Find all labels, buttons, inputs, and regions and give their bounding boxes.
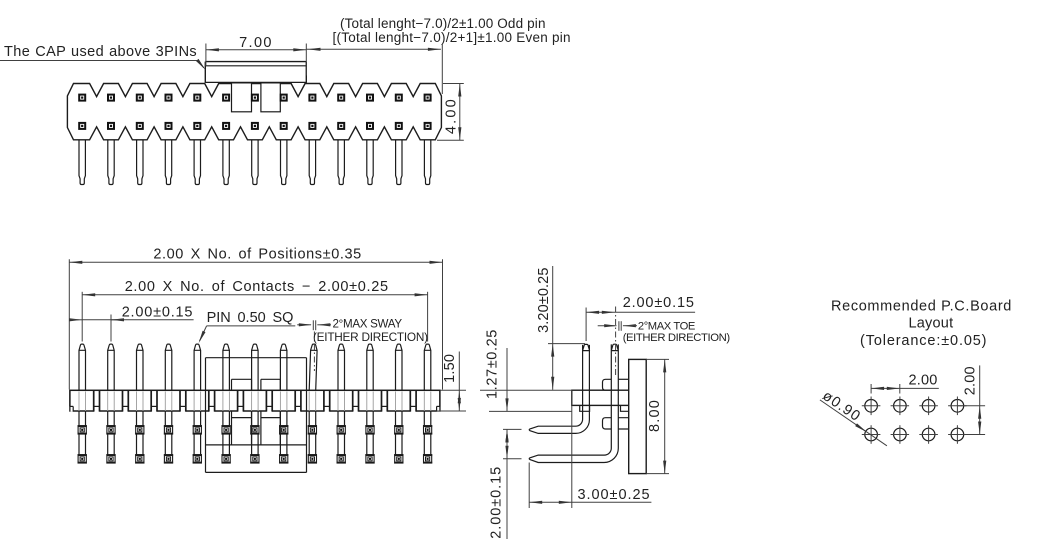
leader note: The CAP used above 3PINs	[0, 44, 206, 70]
dimension 3.00±0.25 (tail length)	[529, 390, 651, 508]
svg-text:1.27±0.25: 1.27±0.25	[485, 329, 501, 399]
svg-text:1.50: 1.50	[442, 354, 458, 383]
front view: body strip	[70, 390, 440, 411]
top view: cap post right	[261, 83, 280, 112]
front view: body position separations and bottom notches	[69, 390, 440, 412]
svg-text:3.20±0.25: 3.20±0.25	[536, 268, 552, 333]
front view: cap outline (phantom)	[206, 358, 307, 473]
dimension 2.00 X No. of Positions±0.35	[69, 247, 442, 390]
svg-text:4.00: 4.00	[443, 97, 459, 134]
front view: 13 mating pins (upward)	[79, 344, 431, 390]
svg-text:2.00 X No. of Contacts −: 2.00 X No. of Contacts − 2.00±0.25	[125, 279, 389, 295]
dimension (Total lenght-7.0)/2±1.00 Odd pin	[306, 16, 571, 94]
dimension 4.00 (body width)	[437, 84, 464, 141]
svg-text:7.00: 7.00	[239, 35, 273, 51]
top view: header body outline	[67, 84, 441, 140]
svg-text:Recommended P.C.Board: Recommended P.C.Board	[831, 298, 1012, 314]
svg-text:(EITHER DIRECTION): (EITHER DIRECTION)	[623, 332, 731, 344]
dimension 2.00±0.15 (pin pitch)	[69, 304, 193, 341]
side view: retention teeth on pin B	[603, 379, 612, 429]
svg-text:PIN 0.50 SQ: PIN 0.50 SQ	[207, 310, 294, 326]
front view: 13 solder tails with retention squares	[78, 392, 433, 464]
side view: pin row A (upper/left) with 90° bend	[529, 344, 589, 433]
note 2°MAX TOE (EITHER DIRECTION)	[598, 320, 731, 344]
dimension 1.27±0.25	[485, 329, 572, 442]
svg-text:2.00: 2.00	[963, 366, 979, 395]
svg-text:2.00±0.15: 2.00±0.15	[122, 304, 194, 320]
dimension 2.00±0.15 (row spacing, left)	[489, 429, 522, 539]
svg-text:2.00 X No. of Positions±0.: 2.00 X No. of Positions±0.35	[153, 247, 361, 263]
side view: toe centerline (pin B)	[615, 307, 617, 376]
pcb layout: hole pattern 4 x 2	[862, 397, 967, 444]
leader note PIN 0.50 SQ	[199, 310, 296, 343]
note 2°MAX SWAY (EITHER DIRECTION)	[297, 317, 428, 344]
svg-text:8.00: 8.00	[647, 399, 663, 432]
side view: body teeth right of pin B	[618, 379, 628, 429]
top view: cap post left	[232, 83, 252, 112]
svg-text:2°MAX TOE: 2°MAX TOE	[638, 320, 695, 332]
side view: pin row B (lower/right) with 90° bend	[529, 344, 618, 462]
pcb layout title	[831, 298, 1012, 349]
dimension 7.00 (cap width)	[206, 35, 306, 76]
top view: cap outline (7.00 wide)	[205, 62, 306, 83]
svg-text:[(Total lenght−7.0)/2+1]±1.00: [(Total lenght−7.0)/2+1]±1.00 Even pin	[333, 30, 571, 45]
dimension 1.50 (body height)	[436, 352, 466, 412]
svg-text:(EITHER DIRECTION): (EITHER DIRECTION)	[313, 330, 428, 344]
side view: mounting plate (8.00 tall)	[629, 359, 647, 473]
svg-text:(Tolerance:±0.05): (Tolerance:±0.05)	[860, 333, 987, 349]
dimension 2.00 X No. of Contacts - 2.00±0.25	[82, 279, 427, 341]
svg-text:2.00±0.15: 2.00±0.15	[623, 295, 695, 311]
pcb dimension 2.00 vertical	[957, 365, 985, 434]
top view: pin contact pads grid (2 x 13)	[78, 94, 431, 130]
svg-text:3.00±0.25: 3.00±0.25	[578, 487, 651, 503]
dimension 8.00 (plate height)	[646, 359, 669, 473]
pcb leader Ø0.90	[819, 388, 887, 446]
svg-text:(Total lenght−7.0)/2±1.00 Odd: (Total lenght−7.0)/2±1.00 Odd pin	[340, 16, 546, 31]
top view: 13 pin tails	[79, 140, 431, 185]
svg-text:2.00±0.15: 2.00±0.15	[489, 466, 505, 539]
front view: sway centerline (pin 9)	[313, 320, 315, 371]
dimension 2.00±0.15 (pin pitch, top)	[586, 295, 695, 341]
side view: body feet	[580, 405, 629, 411]
side view: body profile	[572, 390, 629, 405]
svg-text:The CAP used above 3PINs: The CAP used above 3PINs	[4, 44, 197, 60]
dimension 3.20±0.25 (pin length above body)	[480, 266, 585, 390]
svg-text:Layout: Layout	[908, 316, 953, 332]
svg-text:2.00: 2.00	[908, 373, 937, 389]
svg-text:2°MAX SWAY: 2°MAX SWAY	[333, 317, 403, 330]
pcb dimension 2.00 horizontal	[871, 373, 939, 394]
